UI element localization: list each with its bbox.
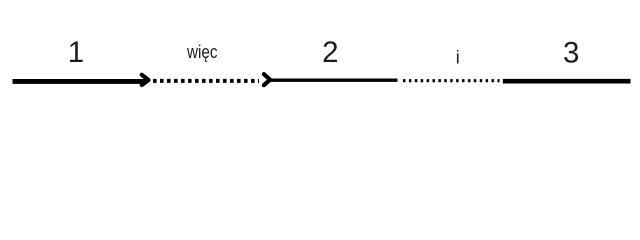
svg-text:2: 2 — [322, 36, 338, 69]
svg-text:1: 1 — [68, 36, 84, 69]
svg-text:więc: więc — [186, 42, 217, 62]
svg-text:i: i — [456, 48, 460, 68]
wire dotted segment D — [403, 79, 500, 82]
arrowhead 2 — [264, 74, 270, 85]
wire solid segment A — [13, 79, 147, 84]
wire solid segment E — [503, 79, 631, 84]
wire solid segment C — [270, 79, 398, 82]
wire dotted segment B — [153, 79, 259, 83]
svg-text:3: 3 — [563, 37, 579, 70]
arrowhead 1 — [142, 75, 149, 85]
